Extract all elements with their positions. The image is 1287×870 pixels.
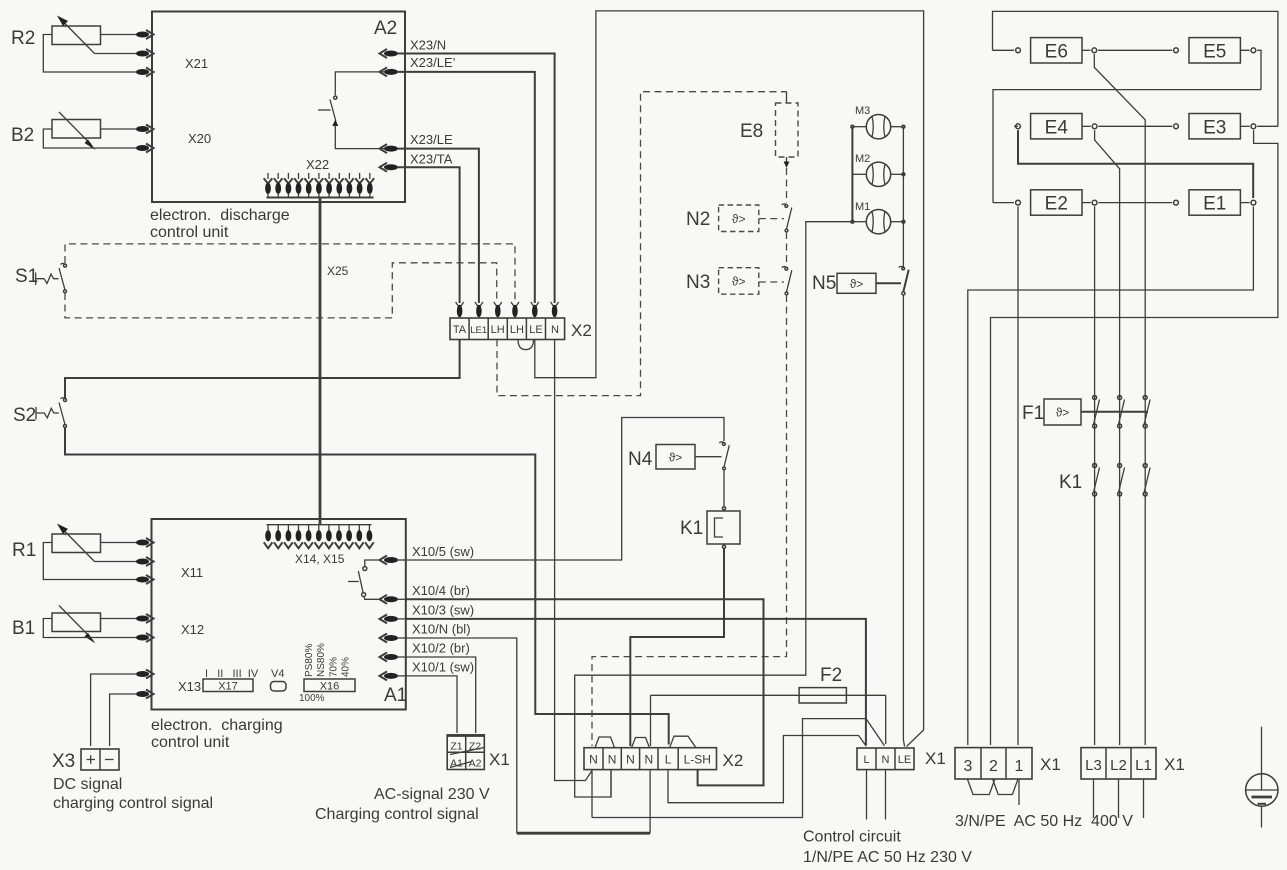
wire N bottom to bottom X2:N1 bbox=[555, 340, 592, 781]
earth symbol bbox=[1246, 774, 1278, 806]
svg-text:N: N bbox=[626, 753, 635, 767]
wire B1 top to X12 pin1 bbox=[101, 618, 138, 620]
motor M1 bbox=[866, 210, 890, 234]
svg-text:X11: X11 bbox=[181, 565, 203, 580]
svg-text:L: L bbox=[665, 753, 672, 767]
svg-text:R2: R2 bbox=[11, 28, 35, 49]
svg-text:X2: X2 bbox=[723, 751, 744, 770]
svg-text:X20: X20 bbox=[188, 131, 211, 146]
thermostat N2 (dashed box) bbox=[719, 205, 759, 232]
connector X22 pins bbox=[264, 173, 374, 198]
pin arrows X13 bbox=[136, 670, 154, 699]
svg-text:ϑ>: ϑ> bbox=[669, 451, 683, 465]
svg-text:LE1: LE1 bbox=[470, 325, 487, 336]
contact N5 bbox=[899, 266, 909, 295]
wire B2 bottom loop to X20 pin2 bbox=[43, 129, 137, 148]
terminal X1 control circuit bbox=[857, 748, 914, 770]
wire E2 right bbox=[1082, 202, 1172, 204]
svg-text:N: N bbox=[882, 754, 890, 766]
wire N1 jog to N feed bbox=[591, 770, 593, 818]
wire F2 right to control circuit N bbox=[885, 695, 887, 744]
control unit A2 box bbox=[152, 12, 405, 203]
svg-text:A1: A1 bbox=[384, 685, 407, 706]
earth stub below bbox=[1261, 806, 1263, 827]
dashed wire N3 box to contact bbox=[759, 281, 784, 283]
contact N4 bbox=[719, 442, 729, 470]
svg-text:A1: A1 bbox=[450, 758, 463, 770]
motor M3 bbox=[866, 115, 890, 139]
control unit A1 box bbox=[152, 519, 406, 710]
wire E8 bottom stub with arrow bbox=[784, 157, 790, 168]
wire R1 top to X11 pin1 bbox=[101, 542, 138, 544]
bridge L to L-SH bbox=[670, 736, 696, 748]
svg-text:ϑ>: ϑ> bbox=[1056, 406, 1070, 420]
svg-text:K1: K1 bbox=[680, 518, 703, 539]
wire E3 out to edge bbox=[1240, 125, 1249, 127]
wire L3 stub below bbox=[1093, 779, 1095, 818]
svg-text:70%: 70% bbox=[329, 657, 340, 677]
wire E6 right bbox=[1082, 49, 1172, 51]
svg-text:L2: L2 bbox=[1110, 757, 1127, 774]
svg-text:N4: N4 bbox=[628, 449, 653, 470]
wire R2 bottom loop to X21 pin3 bbox=[43, 35, 137, 73]
node E3 right bbox=[1251, 124, 1256, 129]
terminal X1 Z-block bbox=[447, 735, 486, 770]
wire motor left rail bbox=[851, 125, 866, 223]
wire X10/3 to control circuit L bbox=[406, 619, 866, 745]
svg-text:B2: B2 bbox=[11, 125, 34, 146]
relay contact inside A1 bbox=[348, 560, 380, 599]
svg-text:3: 3 bbox=[964, 758, 973, 775]
svg-text:PS80%: PS80% bbox=[304, 644, 315, 677]
wire N stub below bbox=[885, 770, 887, 820]
wire X10/2 to X1:Z2 bbox=[406, 657, 476, 733]
wire motor right stubs to phase rail bbox=[891, 125, 905, 223]
wire L drop to control L bbox=[668, 736, 866, 803]
svg-text:X23/LE’: X23/LE’ bbox=[410, 55, 456, 70]
svg-text:NS80%: NS80% bbox=[316, 643, 327, 677]
dashed wire LH1 bottom to E8 top bbox=[497, 92, 787, 396]
wire E8 top stub bbox=[786, 92, 788, 103]
thermistor B2 bbox=[52, 112, 101, 150]
svg-text:N: N bbox=[589, 753, 598, 767]
wire X23/LE down to X2:LE1 bbox=[398, 149, 479, 303]
terminal X2 bottom block bbox=[584, 748, 717, 770]
wire X10/N thick run to N4 terminal bbox=[517, 832, 650, 835]
pin arrows X20 bbox=[136, 125, 154, 153]
element E1 bbox=[1189, 190, 1240, 215]
svg-text:2: 2 bbox=[989, 758, 998, 775]
svg-text:X23/LE: X23/LE bbox=[410, 132, 453, 147]
svg-text:R1: R1 bbox=[12, 540, 36, 561]
svg-text:X16: X16 bbox=[320, 681, 340, 693]
wire X10/4 to bottom X2:L-SH bbox=[406, 599, 764, 785]
pin arrow X10/4 bbox=[380, 595, 407, 604]
wire motors neutral return to bottom X2:N2 bbox=[575, 222, 853, 797]
svg-text:N: N bbox=[608, 753, 617, 767]
bridge 2-1 below bbox=[993, 779, 1018, 795]
wire E4 right bbox=[1082, 125, 1172, 127]
connector X14 X15 pins bbox=[264, 525, 374, 549]
svg-text:electron. discharge: electron. discharge bbox=[150, 207, 290, 224]
svg-text:A2: A2 bbox=[374, 18, 397, 39]
wire F2 left to X2:N4 top bbox=[650, 695, 652, 746]
svg-text:X1: X1 bbox=[489, 750, 510, 769]
svg-text:E3: E3 bbox=[1203, 117, 1226, 138]
svg-text:X22: X22 bbox=[306, 157, 329, 172]
wire B1 bottom loop to X12 pin2 bbox=[43, 619, 137, 638]
wire S2 bottom to X2 bottom L (via LE rail) bbox=[65, 428, 669, 745]
wire F1 trip linkage bbox=[1081, 411, 1148, 413]
terminal X3 bbox=[81, 749, 119, 770]
svg-text:X12: X12 bbox=[181, 622, 204, 637]
element E4 bbox=[1031, 114, 1082, 139]
wire X10/5 up and over to N4 contact bbox=[406, 418, 724, 561]
svg-text:X25: X25 bbox=[327, 264, 349, 278]
wire X13 pin2 to X3 minus bbox=[110, 694, 137, 746]
pin arrow X10/5 bbox=[380, 556, 407, 565]
svg-text:X1: X1 bbox=[925, 749, 946, 768]
wire N5 box right to contact bbox=[876, 282, 901, 284]
svg-text:X21: X21 bbox=[185, 56, 208, 71]
K1 pole 3 bbox=[1143, 464, 1150, 497]
cutout F1 box bbox=[1044, 399, 1081, 425]
wire E1 to terminal 3 bbox=[968, 206, 1254, 745]
K1 pole 2 bbox=[1118, 464, 1125, 497]
element E2 bbox=[1031, 190, 1082, 215]
svg-text:E8: E8 bbox=[740, 121, 763, 142]
svg-text:E4: E4 bbox=[1045, 117, 1069, 138]
wire phase L1 from E6 bbox=[1094, 54, 1145, 745]
svg-text:control unit: control unit bbox=[150, 224, 229, 241]
heater E8 (dashed) bbox=[776, 103, 799, 157]
svg-text:M3: M3 bbox=[855, 105, 870, 117]
svg-text:X23/N: X23/N bbox=[410, 38, 446, 53]
node E1 left bbox=[1174, 200, 1179, 205]
svg-text:L3: L3 bbox=[1085, 757, 1102, 774]
svg-text:S2: S2 bbox=[13, 405, 36, 426]
wire R2 top to X21 pin1 bbox=[101, 34, 138, 36]
wire N1 to control circuit N bbox=[592, 719, 885, 818]
node E4 left bbox=[1016, 124, 1021, 129]
wire E4 row left bbox=[1014, 125, 1018, 127]
connector X22 bar bbox=[267, 197, 374, 199]
svg-text:N3: N3 bbox=[686, 272, 710, 293]
svg-text:40%: 40% bbox=[341, 657, 352, 677]
node E3 left bbox=[1174, 124, 1179, 129]
pin arrow X10/2 bbox=[380, 653, 407, 662]
svg-text:E2: E2 bbox=[1045, 194, 1068, 215]
thermistor B1 bbox=[52, 606, 101, 644]
svg-text:V4: V4 bbox=[271, 668, 284, 680]
connector X14 X15 bar bbox=[267, 524, 372, 526]
node E4 right bbox=[1092, 124, 1097, 129]
F1 pole 1 bbox=[1093, 396, 1100, 429]
element E3 bbox=[1189, 114, 1240, 139]
relay contact inside A2 bbox=[318, 72, 384, 149]
svg-text:AC-signal 230 V: AC-signal 230 V bbox=[374, 786, 490, 803]
wire E2 right phase to L3 bbox=[1094, 206, 1096, 745]
dashed wire S1 bottom to X2:LH1 bbox=[65, 263, 497, 318]
contact N3 bbox=[782, 267, 792, 295]
pin arrow X10/3 bbox=[380, 614, 407, 623]
wire E2 left to terminal 1 bbox=[1017, 206, 1019, 745]
wire X10/1 to X1:Z1 bbox=[406, 676, 457, 733]
wire phase rail M3..N5 contact bbox=[902, 127, 904, 269]
wire N4 box to contact bbox=[695, 456, 722, 458]
svg-text:TA: TA bbox=[453, 324, 467, 336]
svg-text:L-SH: L-SH bbox=[684, 753, 711, 767]
svg-text:N: N bbox=[551, 324, 559, 336]
svg-text:1: 1 bbox=[1015, 758, 1024, 775]
element E6 bbox=[1031, 38, 1082, 63]
svg-text:X17: X17 bbox=[218, 681, 238, 693]
svg-text:N: N bbox=[644, 753, 653, 767]
svg-text:LH: LH bbox=[491, 324, 505, 336]
F1 pole 2 bbox=[1118, 396, 1125, 429]
wire E4 link to E1 (thick) bbox=[1018, 130, 1253, 198]
svg-text:F2: F2 bbox=[820, 665, 842, 686]
dashed wire E8 to N2 contact bbox=[786, 168, 788, 203]
svg-text:3/N/PE AC 50 Hz 400 V: 3/N/PE AC 50 Hz 400 V bbox=[955, 813, 1133, 830]
svg-text:X1: X1 bbox=[1040, 755, 1061, 774]
svg-text:L1: L1 bbox=[1135, 757, 1152, 774]
F1 pole 3 bbox=[1143, 396, 1150, 429]
svg-text:Control circuit: Control circuit bbox=[803, 829, 901, 846]
wire E3 to terminal 2 bbox=[991, 126, 1278, 745]
pin arrow X23/LE' bbox=[380, 67, 399, 76]
svg-text:I II III IV: I II III IV bbox=[205, 668, 259, 680]
svg-text:M1: M1 bbox=[855, 201, 870, 213]
switch S1 (room thermostat contact) bbox=[36, 263, 67, 292]
svg-text:1/N/PE AC 50 Hz 230 V: 1/N/PE AC 50 Hz 230 V bbox=[803, 849, 972, 866]
svg-text:X10/3 (sw): X10/3 (sw) bbox=[412, 603, 474, 618]
svg-text:X14, X15: X14, X15 bbox=[295, 552, 345, 566]
svg-text:LH: LH bbox=[510, 324, 524, 336]
svg-text:N2: N2 bbox=[686, 209, 710, 230]
bridge N3-N4 bbox=[632, 738, 650, 748]
wire S2 top to X2:TA bottom bbox=[65, 340, 460, 399]
pin arrows X21 bbox=[136, 30, 154, 77]
svg-text:ϑ>: ϑ> bbox=[732, 212, 746, 226]
wire X23/LE' down to X2:LE bbox=[398, 72, 535, 303]
svg-text:ϑ>: ϑ> bbox=[850, 277, 864, 291]
svg-text:A2: A2 bbox=[469, 758, 482, 770]
svg-text:Z1: Z1 bbox=[450, 741, 462, 753]
diode V4 bbox=[271, 682, 287, 692]
svg-text:X10/4 (br): X10/4 (br) bbox=[412, 583, 470, 598]
wire N4 contact to K1 coil bbox=[722, 470, 725, 510]
motor M2 bbox=[866, 162, 890, 186]
contactor coil K1 bbox=[707, 511, 740, 544]
pin arrow X10/N bbox=[380, 634, 407, 643]
node E5 left bbox=[1174, 48, 1179, 53]
wire phase L2 from E4 bbox=[1095, 130, 1120, 745]
wire LE bottom loop over the top to control LE bbox=[535, 11, 924, 747]
dashed wire S1 top to X2:LH2 bbox=[65, 244, 515, 303]
svg-text:E6: E6 bbox=[1045, 42, 1068, 63]
svg-text:LE: LE bbox=[529, 324, 542, 336]
plug pins into X2 top bbox=[456, 302, 559, 317]
terminal X1 (L3 L2 L1) bbox=[1081, 748, 1156, 779]
wire X23/N down to X2:N bbox=[398, 54, 555, 304]
wire B2 top to X20 pin1 bbox=[101, 128, 138, 130]
svg-text:B1: B1 bbox=[12, 618, 35, 639]
svg-text:ϑ>: ϑ> bbox=[732, 275, 746, 289]
resistor R1 (sensor, potentiometer) bbox=[52, 524, 101, 562]
dashed wire N2 to N3 bbox=[786, 232, 788, 266]
wire X23/TA down to X2:TA bbox=[398, 167, 460, 303]
contact N2 bbox=[782, 204, 792, 232]
bridge N1-N2 bbox=[595, 737, 615, 748]
svg-text:control unit: control unit bbox=[151, 734, 230, 751]
wire top bus E6 loop bbox=[993, 11, 1278, 126]
programming links X16 bbox=[304, 679, 355, 693]
fuse F2 bbox=[651, 688, 886, 703]
programming links X17 bbox=[203, 679, 253, 693]
wire E6 row bbox=[993, 49, 1015, 51]
wire R1 wiper to X11 pin2 bbox=[95, 561, 138, 563]
wire bus2 E4 loop bbox=[993, 90, 1261, 203]
node E5 right bbox=[1251, 48, 1256, 53]
pin arrow X23/TA bbox=[380, 163, 399, 172]
wire R1 bottom loop to X11 pin3 bbox=[43, 543, 137, 580]
svg-text:L: L bbox=[863, 754, 869, 766]
resistor R2 (sensor, potentiometer) bbox=[52, 16, 101, 54]
svg-text:LE: LE bbox=[898, 754, 911, 766]
svg-text:M2: M2 bbox=[855, 153, 870, 165]
wire X25 ribbon bbox=[319, 197, 322, 525]
wire E5 out to bus2 bbox=[1240, 50, 1261, 89]
svg-text:X10/2 (br): X10/2 (br) bbox=[412, 641, 470, 656]
bridge 3-2 below bbox=[967, 779, 995, 795]
node E6 right bbox=[1092, 48, 1097, 53]
svg-text:X3: X3 bbox=[52, 751, 75, 772]
node E2 right bbox=[1092, 200, 1097, 205]
K1 pole 1 bbox=[1093, 464, 1100, 497]
switch S2 (charge release) bbox=[36, 398, 67, 428]
stub below bridge bbox=[1018, 779, 1020, 805]
node E1 right bbox=[1251, 200, 1256, 205]
pin arrows X12 bbox=[136, 614, 154, 642]
element E5 bbox=[1189, 38, 1240, 63]
svg-text:E5: E5 bbox=[1203, 42, 1226, 63]
link LH2-LE below terminal bbox=[518, 340, 534, 350]
terminal X2 top block bbox=[450, 318, 565, 340]
safety cutout N5 box bbox=[837, 273, 876, 293]
svg-text:DC signal: DC signal bbox=[53, 776, 122, 793]
wire X13 pin1 to X3 plus bbox=[91, 674, 137, 746]
wire E1 right stub bbox=[1240, 202, 1249, 204]
wire L stub below bbox=[866, 770, 868, 820]
wire N2 drop bbox=[610, 770, 612, 797]
svg-text:X10/N (bl): X10/N (bl) bbox=[412, 622, 471, 637]
svg-text:N5: N5 bbox=[812, 273, 836, 294]
node E6 left bbox=[1016, 48, 1021, 53]
wire N4 terminal drop bbox=[649, 770, 651, 833]
wire L1 stub below bbox=[1143, 779, 1145, 818]
svg-text:X10/5 (sw): X10/5 (sw) bbox=[412, 544, 474, 559]
pin arrow X10/1 bbox=[380, 671, 407, 680]
svg-text:S1: S1 bbox=[15, 266, 38, 287]
rotated labels PS80% NS80% 70% 40% bbox=[304, 643, 352, 677]
wire R2 wiper to X21 pin2 bbox=[95, 53, 138, 55]
svg-text:F1: F1 bbox=[1022, 403, 1044, 424]
pin arrow X23/LE bbox=[380, 144, 399, 153]
dashed wire N2 box to contact bbox=[759, 218, 784, 220]
wire E2 row left bbox=[993, 202, 1014, 204]
wire N5 down to control LE bbox=[903, 295, 904, 747]
wire L2 stub below bbox=[1118, 779, 1120, 818]
thermostat N3 (dashed box) bbox=[719, 268, 759, 295]
node E2 left bbox=[1016, 200, 1021, 205]
svg-text:X10/1 (sw): X10/1 (sw) bbox=[412, 660, 474, 675]
wire X10/N to bottom X2:N4 bbox=[406, 638, 517, 833]
svg-text:K1: K1 bbox=[1059, 472, 1082, 493]
dashed wire N3 to neutral N1 bbox=[592, 295, 787, 746]
svg-text:100%: 100% bbox=[299, 693, 325, 704]
wire K1 coil to bottom X2:N3 bbox=[630, 545, 725, 746]
svg-text:Charging control signal: Charging control signal bbox=[315, 806, 479, 823]
svg-text:X13: X13 bbox=[178, 679, 201, 694]
svg-text:X2: X2 bbox=[571, 321, 592, 340]
svg-text:X23/TA: X23/TA bbox=[410, 152, 453, 167]
thermostat N4 box bbox=[656, 445, 695, 470]
pin arrows X11 bbox=[136, 538, 154, 584]
svg-text:electron. charging: electron. charging bbox=[151, 717, 283, 734]
terminal X1 (3 2 1) bbox=[955, 748, 1032, 779]
pin arrow X23/N bbox=[380, 49, 399, 58]
svg-text:E1: E1 bbox=[1203, 194, 1226, 215]
svg-text:X1: X1 bbox=[1164, 755, 1185, 774]
svg-text:charging control signal: charging control signal bbox=[53, 795, 213, 812]
earth stub above bbox=[1261, 727, 1263, 790]
